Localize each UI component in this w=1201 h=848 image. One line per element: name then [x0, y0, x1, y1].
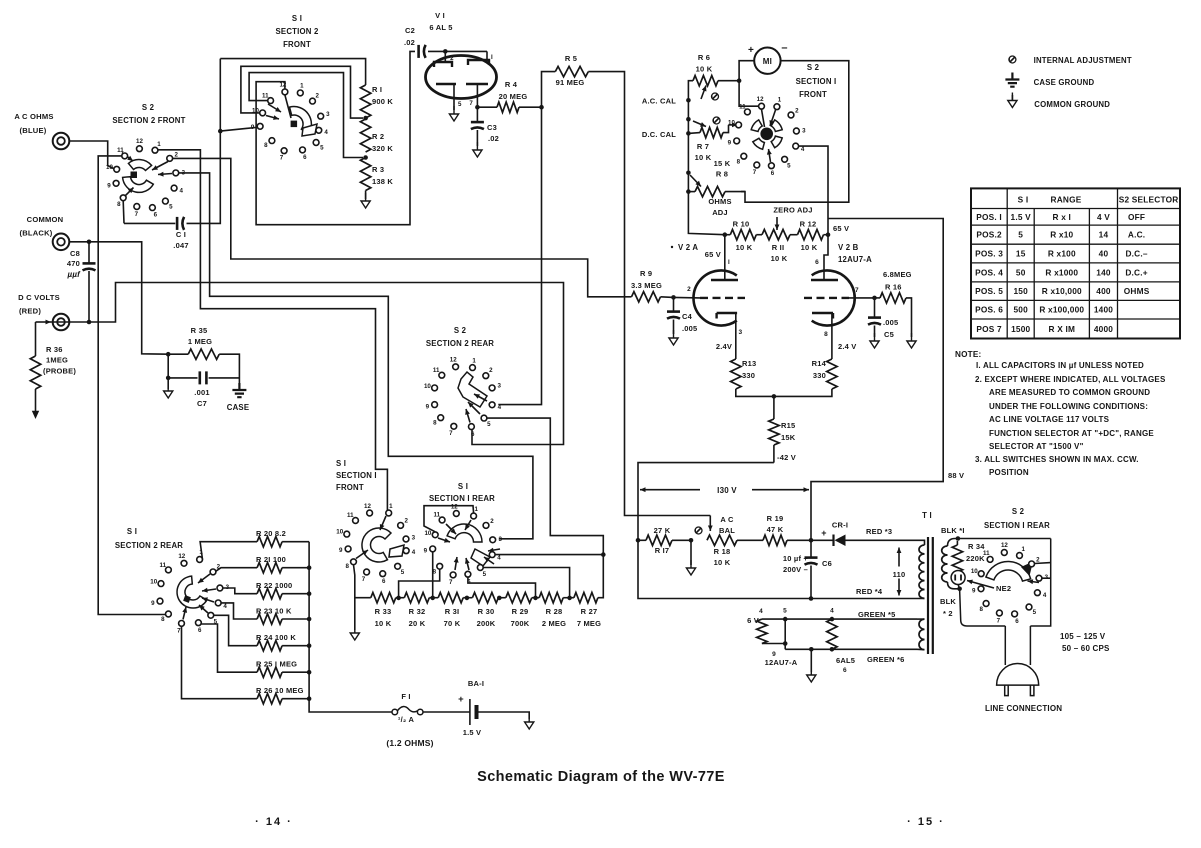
svg-text:5: 5 [1033, 609, 1037, 616]
svg-text:LINE CONNECTION: LINE CONNECTION [985, 704, 1062, 713]
resistor R23 10K [221, 603, 257, 619]
tube V1 6AL5 envelope [426, 56, 497, 99]
resistor R33 10K [371, 593, 396, 603]
svg-text:R 8: R 8 [716, 170, 728, 179]
svg-text:8: 8 [264, 142, 268, 149]
svg-text:2: 2 [795, 107, 799, 114]
svg-text:(BLUE): (BLUE) [20, 126, 47, 135]
svg-text:4: 4 [324, 129, 328, 136]
svg-text:47 K: 47 K [767, 525, 784, 534]
svg-text:5: 5 [483, 571, 487, 578]
battery BA-1 1.5V [469, 699, 471, 725]
svg-text:R 16: R 16 [885, 283, 902, 292]
svg-text:4: 4 [497, 555, 501, 562]
svg-text:R 6: R 6 [698, 53, 710, 62]
svg-text:6: 6 [198, 627, 202, 634]
svg-text:3: 3 [412, 534, 416, 541]
svg-text:R 5: R 5 [565, 54, 577, 63]
svg-text:R 27: R 27 [581, 607, 598, 616]
wire S2f contact 8 to C1 [122, 201, 125, 224]
node R2-R3 [363, 155, 368, 160]
resistor row left ground [354, 565, 355, 630]
svg-text:MI: MI [763, 57, 772, 66]
svg-text:10 µf +: 10 µf + [783, 554, 809, 563]
svg-text:F I: F I [401, 692, 410, 701]
svg-text:* 2: * 2 [943, 609, 953, 618]
svg-text:(1.2 OHMS): (1.2 OHMS) [386, 738, 433, 748]
node R17 left [636, 538, 641, 543]
switch S1 section 2 front contacts [297, 90, 303, 96]
svg-text:10: 10 [336, 529, 343, 536]
wire ohms node to S2 sec2 rear contact 5 [487, 418, 603, 554]
node V1 pin7 [475, 105, 480, 110]
svg-text:10 K: 10 K [375, 619, 392, 628]
svg-text:CR-I: CR-I [832, 521, 848, 530]
ground common heater [810, 649, 812, 672]
svg-text:R x100,000: R x100,000 [1039, 305, 1084, 315]
svg-text:SELECTOR AT "1500 V": SELECTOR AT "1500 V" [989, 442, 1084, 451]
resistor R10 10K [725, 234, 731, 236]
tube V2B cathode pin 8 [812, 313, 833, 319]
svg-text:11: 11 [433, 367, 440, 374]
node DCCAL [686, 131, 691, 136]
svg-text:BLK: BLK [940, 597, 956, 606]
node R6 meter junction [737, 78, 742, 83]
svg-text:6: 6 [815, 259, 819, 266]
svg-text:2: 2 [404, 517, 408, 524]
ground CASE [232, 383, 246, 397]
svg-text:GREEN *6: GREEN *6 [867, 655, 904, 664]
svg-text:D.C. CAL: D.C. CAL [642, 130, 676, 139]
svg-text:BAL: BAL [719, 526, 735, 535]
wire C2 to V1 plates [428, 50, 487, 52]
svg-text:10 K: 10 K [801, 243, 818, 252]
svg-text:C3: C3 [487, 123, 497, 132]
wire S2f contact 3 to S1 rear contact 3 [179, 173, 533, 539]
svg-text:R 2I 100: R 2I 100 [256, 555, 286, 564]
wire S1r contact 5 to row [483, 568, 569, 598]
switch S2 section 2 front contacts [152, 147, 158, 153]
svg-text:S I: S I [292, 14, 302, 23]
resistor R13 330 [731, 359, 741, 389]
resistor R1 900K [360, 85, 370, 118]
svg-text:12: 12 [757, 96, 764, 103]
svg-text:ADJ: ADJ [712, 208, 728, 217]
svg-text:+: + [821, 528, 826, 538]
capacitor C3 .02 [476, 107, 478, 122]
tube V2B grid pin 7 [804, 297, 849, 299]
wire R9 to V2A grid [674, 296, 701, 299]
svg-text:10 K: 10 K [736, 243, 753, 252]
capacitor C8 470uuF [88, 242, 90, 263]
svg-text:1: 1 [474, 506, 478, 513]
svg-text:V I: V I [435, 11, 445, 20]
svg-text:C6: C6 [822, 559, 832, 568]
svg-text:1: 1 [157, 141, 161, 148]
ground common below C4 [669, 330, 678, 345]
resistor R30 200K [472, 593, 498, 603]
meter M1 [754, 48, 780, 74]
svg-text:COMMON GROUND: COMMON GROUND [1034, 100, 1110, 109]
resistor R9 3.3MEG [632, 292, 661, 302]
resistor R21 100 [216, 568, 257, 572]
wire S2f contact 4 to zero-adj node [799, 146, 828, 235]
switch S1 section 2 front rotor [290, 107, 312, 134]
wire S2f contact 11 long left wire to S1 sec2 rear contact 8 [98, 156, 165, 615]
svg-text:10 K: 10 K [714, 558, 731, 567]
svg-text:11: 11 [434, 512, 441, 519]
wire S1r contact 6 to row [468, 577, 536, 598]
resistor R27 7MEG [574, 593, 598, 603]
svg-text:6 AL 5: 6 AL 5 [429, 23, 452, 32]
svg-text:FUNCTION SELECTOR AT "+DC",: FUNCTION SELECTOR AT "+DC", RANGE [989, 429, 1154, 438]
svg-text:5: 5 [1018, 230, 1023, 240]
tube V2A grid pin 2 [700, 297, 745, 299]
wire R4 node to S2 sec2 rear contact 4 [498, 107, 541, 404]
svg-text:.001: .001 [194, 388, 209, 397]
svg-text:9: 9 [772, 651, 776, 658]
svg-text:11: 11 [262, 92, 269, 99]
wire DC VOLTS bus to S2 rear contact 6 [70, 283, 564, 445]
svg-text:1: 1 [389, 503, 393, 510]
svg-text:R 28: R 28 [546, 607, 563, 616]
tube V1 right diode cathode pin 7 [466, 83, 488, 85]
svg-text:2.4V: 2.4V [716, 342, 732, 351]
svg-text:INTERNAL ADJUSTMENT: INTERNAL ADJUSTMENT [1034, 56, 1132, 65]
svg-text:900 K: 900 K [372, 97, 393, 106]
svg-text:OFF: OFF [1128, 212, 1145, 222]
wire meter plus to S2 contact 12 [739, 61, 758, 106]
transformer T1 core [928, 537, 933, 654]
svg-text:150: 150 [1013, 286, 1028, 296]
capacitor C2 .02 [417, 45, 420, 58]
node C1 tap to contact 9 [218, 129, 223, 134]
svg-text:4: 4 [830, 608, 834, 615]
resistor R25 1MEG [201, 624, 257, 672]
tube V2A cathode pin 3 [717, 313, 738, 319]
wire 65V to V2A plate [724, 235, 726, 269]
svg-text:1.5 V: 1.5 V [1011, 212, 1032, 222]
switch S1 section 1 rear contacts [471, 513, 477, 519]
svg-text:6: 6 [303, 154, 307, 161]
svg-text:20 MEG: 20 MEG [499, 92, 528, 101]
svg-text:R 18: R 18 [714, 547, 731, 556]
svg-text:SECTION 2 REAR: SECTION 2 REAR [115, 541, 183, 550]
node V2B grid right [872, 296, 877, 301]
svg-text:D C VOLTS: D C VOLTS [18, 293, 60, 302]
svg-text:R 4: R 4 [505, 80, 518, 89]
tube V1 left diode plate pin 2 [444, 51, 446, 62]
svg-text:A.C.: A.C. [1128, 230, 1145, 240]
svg-text:POS. I: POS. I [976, 212, 1002, 222]
svg-text:7: 7 [449, 430, 453, 437]
node R28-R27 [567, 596, 572, 601]
svg-text:500: 500 [1013, 305, 1028, 315]
svg-text:7: 7 [280, 155, 284, 162]
svg-text:7: 7 [449, 579, 453, 586]
svg-text:2: 2 [687, 286, 691, 293]
svg-text:V 2 A: V 2 A [678, 243, 698, 252]
svg-text:I30 V: I30 V [717, 486, 737, 495]
resistor R17 27K [638, 539, 646, 541]
dimension 110 [898, 548, 900, 569]
svg-text:µµf: µµf [67, 270, 82, 279]
node R10 left 65V [723, 232, 728, 237]
svg-text:9: 9 [728, 140, 732, 147]
svg-text:15 K: 15 K [714, 159, 731, 168]
svg-text:2. EXCEPT WHERE INDICATED, A: 2. EXCEPT WHERE INDICATED, ALL VOLTAGES [975, 375, 1166, 384]
svg-text:.02: .02 [404, 38, 415, 47]
resistor R15 15K [773, 396, 775, 419]
svg-text:1.5 V: 1.5 V [463, 728, 482, 737]
legend common ground [1011, 95, 1013, 100]
svg-text:7: 7 [177, 627, 181, 634]
node R33-R32 [396, 596, 401, 601]
resistor R12 10K [798, 230, 824, 240]
resistor R7 10K pot D.C. CAL [688, 132, 700, 135]
svg-text:12: 12 [451, 503, 458, 510]
svg-text:+: + [748, 45, 754, 56]
jack J1 AC OHMS (BLUE) [53, 133, 70, 150]
ground common below R3 [365, 191, 367, 200]
svg-text:11: 11 [739, 103, 746, 110]
svg-text:OHMS: OHMS [1124, 286, 1150, 296]
svg-text:11: 11 [160, 562, 167, 569]
svg-text:15: 15 [1016, 249, 1026, 259]
svg-text:S I: S I [127, 527, 137, 536]
svg-text:7: 7 [997, 617, 1001, 624]
svg-text:R 30: R 30 [478, 607, 495, 616]
svg-text:C8: C8 [70, 249, 80, 258]
svg-text:11: 11 [983, 550, 990, 557]
resistor R28 2MEG [539, 593, 563, 603]
svg-text:6: 6 [382, 578, 386, 585]
node R32-R31 [430, 596, 435, 601]
node C6 CR1 [809, 538, 814, 543]
svg-text:T I: T I [922, 511, 932, 520]
node R12 right 65V [826, 232, 831, 237]
svg-text:10: 10 [971, 568, 978, 575]
svg-text:R x I: R x I [1053, 212, 1072, 222]
legend case ground [1005, 73, 1019, 87]
svg-text:1: 1 [472, 357, 476, 364]
svg-text:R 24 100 K: R 24 100 K [256, 633, 296, 642]
svg-text:7: 7 [135, 211, 139, 218]
svg-text:GREEN *5: GREEN *5 [858, 610, 895, 619]
svg-text:C4: C4 [682, 312, 693, 321]
svg-text:200K: 200K [477, 619, 496, 628]
svg-text:9: 9 [151, 600, 155, 607]
svg-text:· 15 ·: · 15 · [907, 816, 945, 828]
svg-text:4: 4 [412, 549, 416, 556]
capacitor C1 .047 [124, 222, 175, 224]
dimension 130V [640, 489, 700, 491]
switch S2 section 1 front contacts [759, 103, 765, 109]
svg-text:10: 10 [424, 383, 431, 390]
svg-text:12AU7-A: 12AU7-A [838, 255, 872, 264]
wire RED4 return [638, 540, 917, 598]
svg-text:NOTE:: NOTE: [955, 350, 981, 359]
resistor R14 330 [827, 359, 837, 389]
node COMMON-C8 [87, 240, 92, 245]
svg-text:65 V: 65 V [833, 224, 849, 233]
svg-text:.005: .005 [682, 324, 697, 333]
svg-text:POS. 6: POS. 6 [975, 305, 1003, 315]
wire S1s2f contact 10 to R1-R2 tap [241, 66, 363, 118]
wire COMMON jack to R35 [70, 242, 169, 354]
svg-text:140: 140 [1096, 267, 1111, 277]
svg-text:(BLACK): (BLACK) [19, 229, 52, 238]
svg-text:NE2: NE2 [996, 584, 1011, 593]
wire S1r contact 4 to ohms node [495, 554, 603, 556]
svg-text:8: 8 [161, 616, 165, 623]
resistor R16 6.8MEG [875, 297, 881, 299]
table range selector grid [971, 188, 1180, 338]
svg-text:(RED): (RED) [19, 307, 41, 316]
svg-text:R x100: R x100 [1048, 249, 1076, 259]
wire S1s2f contact 11 to R2-R3 tap [249, 73, 363, 158]
switch S2 section 1 rear box [960, 539, 1051, 627]
wire fuse to battery [423, 711, 470, 713]
wire R5 to AC BAL wiper arrow [709, 516, 711, 532]
svg-text:R x10: R x10 [1050, 230, 1073, 240]
svg-text:FRONT: FRONT [799, 90, 827, 99]
wire contact 3 to box edge [1042, 577, 1051, 579]
node R1-R2 [363, 116, 368, 121]
svg-text:6: 6 [843, 667, 847, 674]
svg-text:COMMON: COMMON [27, 215, 64, 224]
svg-text:4: 4 [1043, 592, 1047, 599]
wire BLK1 [948, 539, 1051, 547]
svg-text:2: 2 [490, 518, 494, 525]
wire top rail C1 to R1 [220, 59, 365, 85]
svg-text:9: 9 [424, 548, 428, 555]
svg-text:3.3 MEG: 3.3 MEG [631, 281, 662, 290]
tube V1 right diode plate pin 1 [486, 51, 488, 60]
svg-text:R 7: R 7 [697, 142, 709, 151]
svg-text:5: 5 [169, 203, 173, 210]
svg-text:UNDER THE FOLLOWING CONDITI: UNDER THE FOLLOWING CONDITIONS: [989, 402, 1148, 411]
diode CR-1 [811, 539, 834, 541]
svg-text:320 K: 320 K [372, 144, 393, 153]
svg-text:S 2: S 2 [454, 326, 467, 335]
svg-text:R15: R15 [781, 421, 795, 430]
svg-text:ZERO ADJ: ZERO ADJ [773, 206, 812, 215]
plug neck [1005, 626, 1030, 665]
svg-text:R X IM: R X IM [1049, 324, 1076, 334]
svg-text:3: 3 [498, 536, 502, 543]
resistor R2 320K [360, 119, 370, 152]
svg-text:6: 6 [471, 431, 475, 438]
svg-text:S 2: S 2 [807, 63, 820, 72]
svg-text:ARE MEASURED TO COMMON GRO: ARE MEASURED TO COMMON GROUND [989, 388, 1150, 397]
svg-text:R 20 8.2: R 20 8.2 [256, 529, 286, 538]
svg-text:1 MEG: 1 MEG [188, 337, 212, 346]
capacitor C6 10uF 200V [810, 540, 812, 557]
wire battery to ground [479, 712, 530, 719]
resistor R19 47K [763, 535, 787, 545]
svg-text:105 – 125 V: 105 – 125 V [1060, 632, 1106, 641]
switch S1 section 1 rear rotor [447, 524, 482, 542]
node V2A grid [671, 295, 676, 300]
svg-text:R 25 I MEG: R 25 I MEG [256, 660, 297, 669]
svg-text:50 – 60 CPS: 50 – 60 CPS [1062, 644, 1110, 653]
node R4-R5 [539, 105, 544, 110]
heater 6AL5 [827, 619, 837, 649]
svg-text:CASE: CASE [227, 403, 249, 412]
plug dome [997, 664, 1039, 686]
svg-text:SECTION 2: SECTION 2 [276, 27, 319, 36]
svg-text:10: 10 [106, 164, 113, 171]
svg-text:S2 SELECTOR: S2 SELECTOR [1119, 194, 1179, 204]
resistor R36 1MEG probe [35, 322, 37, 356]
switch S1 section 1 front rotor [362, 528, 391, 562]
left rail S2 front [688, 100, 724, 234]
svg-text:1: 1 [778, 97, 782, 104]
svg-text:2.4 V: 2.4 V [838, 342, 857, 351]
svg-text:V 2 B: V 2 B [838, 243, 859, 252]
svg-text:1MEG: 1MEG [46, 356, 68, 365]
resistor R32 20K [404, 593, 429, 603]
svg-text:R 29: R 29 [512, 607, 529, 616]
svg-text:7: 7 [753, 169, 757, 176]
svg-text:Schematic Diagram of the W: Schematic Diagram of the WV-77E [477, 769, 725, 785]
ladder bus wire [309, 542, 392, 712]
svg-text:12: 12 [1001, 542, 1008, 549]
svg-text:D.C.+: D.C.+ [1125, 267, 1147, 277]
svg-text:R14: R14 [812, 359, 827, 368]
wire AC OHMS jack to S2 contact 10 [70, 141, 114, 169]
wire S1r contact 8 to row [399, 569, 440, 598]
tube V2A envelope [693, 270, 736, 325]
svg-text:12AU7-A: 12AU7-A [765, 658, 798, 667]
svg-text:R 2: R 2 [372, 132, 384, 141]
svg-text:SECTION I REAR: SECTION I REAR [429, 494, 495, 503]
svg-text:R 12: R 12 [800, 220, 817, 229]
svg-text:7 MEG: 7 MEG [577, 619, 601, 628]
svg-text:· 14 ·: · 14 · [255, 816, 293, 828]
svg-text:4: 4 [801, 146, 805, 153]
svg-text:7: 7 [469, 100, 473, 107]
resistor R20 8.2 [200, 542, 257, 560]
svg-text:10: 10 [728, 120, 735, 127]
resistor R34 220K [956, 541, 958, 545]
svg-text:7: 7 [855, 287, 859, 294]
svg-text:3: 3 [326, 111, 330, 118]
switch S2 section 1 rear rotor [986, 561, 1031, 581]
capacitor C4 .005 [673, 297, 675, 311]
svg-text:70 K: 70 K [444, 619, 461, 628]
svg-text:1: 1 [300, 83, 304, 90]
svg-text:2: 2 [489, 367, 493, 374]
svg-text:9: 9 [107, 183, 111, 190]
svg-text:110: 110 [893, 570, 906, 579]
resistor R3 138K [360, 158, 370, 191]
jack J3 DC VOLTS (RED) [53, 314, 70, 331]
resistor R26 10MEG [182, 626, 258, 698]
svg-text:330: 330 [813, 371, 826, 380]
node DC-C8 [87, 320, 92, 325]
svg-text:4: 4 [179, 188, 183, 195]
svg-text:470: 470 [67, 259, 80, 268]
node ACCAL [686, 98, 691, 103]
svg-text:¹/₂ A: ¹/₂ A [398, 715, 415, 724]
svg-text:R x10,000: R x10,000 [1042, 286, 1082, 296]
svg-text:20 K: 20 K [409, 619, 426, 628]
switch S2 section 2 front rotor [128, 160, 151, 171]
svg-text:91 MEG: 91 MEG [556, 78, 585, 87]
switch S1 section 2 rear contacts [197, 557, 203, 563]
